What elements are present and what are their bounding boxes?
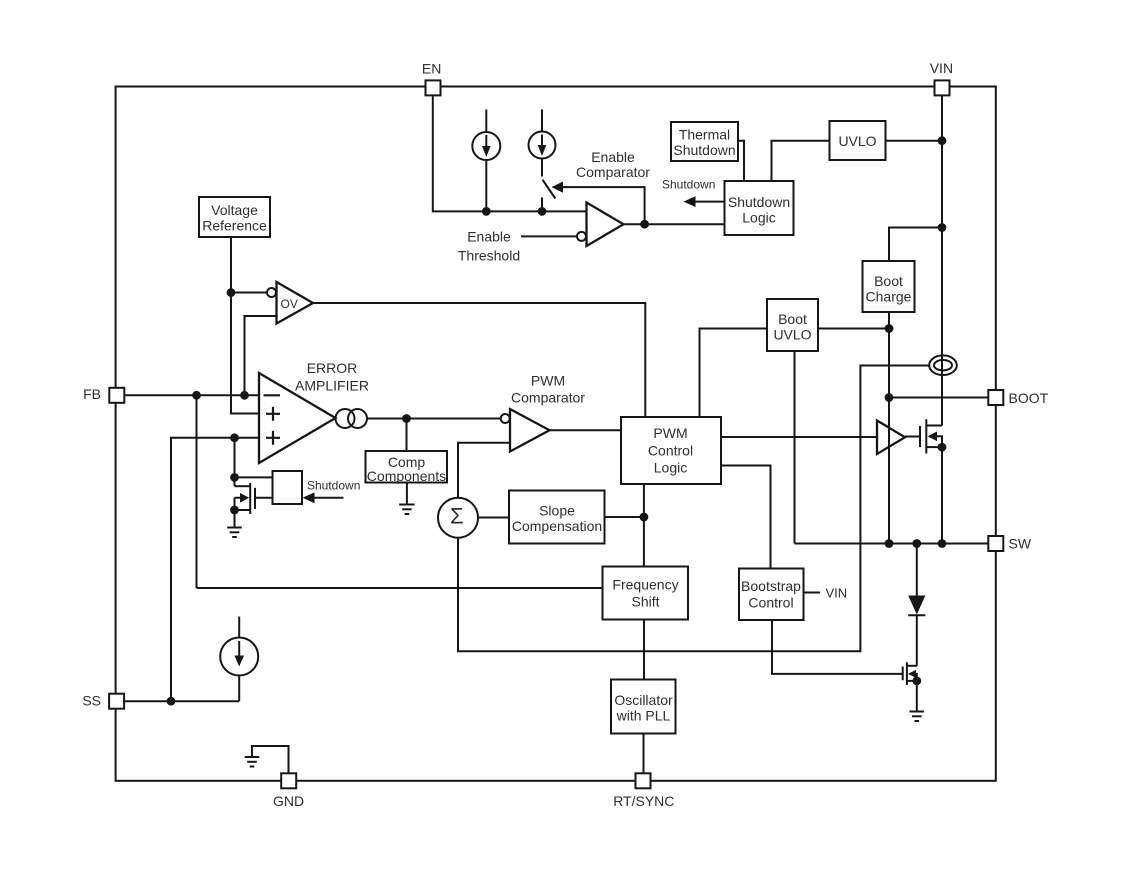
- op-amp U1 enable comparator: [577, 203, 624, 247]
- svg-text:Reference: Reference: [202, 218, 267, 234]
- current source I2: [529, 110, 556, 177]
- transistor Q2 bootstrap low-side MOSFET: [903, 662, 921, 685]
- node EN line junction 2: [538, 207, 547, 216]
- svg-text:Compensation: Compensation: [512, 518, 602, 534]
- switch S1 (enable threshold switch): [542, 180, 555, 212]
- block Shutdown Logic: [725, 181, 794, 235]
- block PWM Control Logic: [621, 417, 721, 484]
- current sense transformer symbol: [929, 355, 957, 375]
- svg-text:Components: Components: [367, 468, 446, 484]
- node VIN-BootCharge junction: [938, 223, 947, 232]
- wire Voltage Reference down to error amp: [231, 237, 259, 414]
- svg-text:AMPLIFIER: AMPLIFIER: [295, 378, 369, 394]
- block Bootstrap Control: [739, 569, 804, 621]
- svg-text:RT/SYNC: RT/SYNC: [613, 793, 674, 809]
- svg-text:Thermal: Thermal: [679, 127, 730, 143]
- svg-text:Logic: Logic: [742, 210, 775, 226]
- wire to shutdown switch: [234, 438, 236, 478]
- wire UVLO to Shutdown Logic: [772, 141, 830, 181]
- svg-text:VIN: VIN: [930, 60, 953, 76]
- svg-text:Charge: Charge: [866, 289, 912, 305]
- block Frequency Shift: [603, 567, 689, 620]
- wire Boot Charge to VIN rail: [889, 228, 942, 262]
- svg-text:GND: GND: [273, 793, 304, 809]
- svg-text:Comparator: Comparator: [576, 164, 650, 180]
- svg-text:Comparator: Comparator: [511, 390, 585, 406]
- wire sigma to PWM comparator input: [458, 443, 510, 498]
- pin SW: [988, 536, 1003, 551]
- node SW junction 2: [912, 539, 921, 548]
- wire BOOT net: [889, 397, 988, 399]
- wire FB to Frequency Shift: [197, 587, 603, 589]
- block Boot Charge: [863, 261, 915, 312]
- block Comp Components: [366, 451, 448, 483]
- op-amp U2 gate driver: [877, 421, 905, 455]
- wire EN vertical and horizontal to enable comparator: [433, 95, 587, 211]
- svg-text:Control: Control: [748, 595, 793, 611]
- svg-text:Logic: Logic: [654, 460, 687, 476]
- wire PWM Control Logic down to Frequency Shift: [643, 484, 645, 567]
- node FB junction 2: [240, 391, 249, 400]
- wire FB input line: [124, 394, 259, 396]
- block Thermal Shutdown: [671, 122, 738, 161]
- svg-text:ERROR: ERROR: [307, 360, 358, 376]
- node comparator output: [640, 220, 649, 229]
- pin BOOT: [988, 390, 1003, 405]
- wire SW line: [795, 543, 989, 545]
- svg-text:FB: FB: [83, 386, 101, 402]
- wire SS input line: [124, 700, 239, 702]
- svg-text:Frequency: Frequency: [612, 577, 678, 593]
- summing node sigma: [438, 498, 478, 538]
- block Boot UVLO: [767, 299, 818, 351]
- node SW junction 1: [885, 539, 894, 548]
- pin EN: [426, 80, 441, 95]
- node SS junction: [167, 697, 176, 706]
- wire shutdown output arrow from Shutdown Logic: [684, 196, 725, 207]
- block UVLO: [830, 121, 886, 160]
- block Slope Compensation: [509, 491, 605, 544]
- wire Boot UVLO to boot rail: [818, 328, 889, 330]
- shutdown driver box: [273, 471, 303, 504]
- wire FB to OV lower input: [245, 316, 277, 395]
- node SS-shutdown junction: [230, 433, 239, 442]
- op-amp U4 error amplifier: [259, 373, 336, 463]
- wire node to driver box: [235, 476, 273, 478]
- svg-text:Shutdown: Shutdown: [662, 178, 715, 192]
- transistor Q3 shutdown MOSFET: [230, 477, 272, 514]
- pin GND: [281, 773, 296, 788]
- ground for Q2: [910, 681, 925, 721]
- svg-text:Boot: Boot: [778, 311, 807, 327]
- wire Bootstrap Control VIN stub: [804, 592, 821, 594]
- wire Oscillator to RT/SYNC pin: [643, 734, 645, 774]
- wire PWM comparator output: [550, 429, 622, 431]
- svg-text:PWM: PWM: [653, 425, 687, 441]
- ground for Q3: [227, 510, 242, 537]
- svg-text:Shift: Shift: [631, 594, 659, 610]
- diode D1: [908, 544, 925, 666]
- wire driver to gate: [905, 436, 920, 438]
- wire Slope Compensation to PWM logic line: [605, 516, 644, 518]
- wire current sense path to summing node: [458, 366, 929, 652]
- svg-text:SS: SS: [82, 693, 101, 709]
- wire sigma to Slope Compensation: [478, 517, 509, 519]
- ground at GND pin: [245, 746, 289, 773]
- node boot rail junction: [885, 324, 894, 333]
- IC boundary: [116, 87, 996, 781]
- wire UVLO to VIN rail: [886, 140, 943, 142]
- node BOOT junction: [885, 393, 894, 402]
- wire shutdown arrow into driver box: [303, 492, 344, 503]
- wire comp node to Comp Components: [406, 419, 408, 452]
- node EN line junction 1: [482, 207, 491, 216]
- node comp node: [402, 414, 411, 423]
- wire Bootstrap Control to Q2 gate: [772, 620, 903, 674]
- svg-text:BOOT: BOOT: [1009, 390, 1049, 406]
- svg-text:SW: SW: [1009, 536, 1032, 552]
- svg-text:Shutdown: Shutdown: [307, 479, 360, 493]
- current source I1: [472, 110, 500, 212]
- svg-text:Enable: Enable: [591, 149, 635, 165]
- wire enable threshold input: [521, 235, 577, 237]
- svg-text:Boot: Boot: [874, 273, 903, 289]
- current source I3 soft start: [220, 617, 258, 702]
- node vref-OV junction: [227, 288, 236, 297]
- pin FB: [109, 388, 124, 403]
- svg-text:Σ: Σ: [450, 504, 464, 529]
- block Oscillator with PLL: [611, 680, 676, 734]
- wire OV output to PWM Control Logic: [313, 303, 645, 417]
- svg-text:Oscillator: Oscillator: [614, 692, 673, 708]
- ground for Comp Components: [399, 483, 414, 515]
- svg-text:UVLO: UVLO: [773, 327, 811, 343]
- svg-text:with PLL: with PLL: [616, 708, 671, 724]
- svg-text:Enable: Enable: [467, 229, 511, 245]
- wire VIN rail vertical: [941, 95, 943, 425]
- svg-text:Shutdown: Shutdown: [728, 194, 790, 210]
- svg-text:Control: Control: [648, 443, 693, 459]
- svg-text:PWM: PWM: [531, 373, 565, 389]
- node shutdown switch top: [230, 473, 239, 482]
- wire Boot Charge down to SW line: [888, 312, 890, 544]
- wire comparator feedback to switch with arrow: [552, 182, 645, 225]
- wire Boot UVLO down to SW line: [794, 351, 796, 544]
- svg-text:Bootstrap: Bootstrap: [741, 578, 801, 594]
- op-amp U5 PWM comparator: [501, 409, 550, 452]
- svg-text:Voltage: Voltage: [211, 202, 258, 218]
- svg-text:UVLO: UVLO: [838, 133, 876, 149]
- svg-text:Threshold: Threshold: [458, 248, 520, 264]
- pin VIN: [935, 80, 950, 95]
- wire PWM Control Logic to gate driver: [721, 436, 877, 438]
- node UVLO-VIN junction: [938, 136, 947, 145]
- node SW junction 3: [938, 539, 947, 548]
- svg-text:OV: OV: [281, 297, 298, 311]
- wire Frequency Shift to Oscillator: [643, 620, 645, 680]
- wire Thermal Shutdown to Shutdown Logic: [738, 141, 744, 181]
- wire FB down to Frequency Shift: [196, 395, 198, 588]
- node FB junction 1: [192, 391, 201, 400]
- wire PWM Control Logic to Bootstrap Control: [721, 466, 771, 569]
- svg-text:Shutdown: Shutdown: [673, 142, 735, 158]
- svg-text:VIN: VIN: [826, 586, 848, 601]
- transistor Q1 high-side MOSFET: [920, 419, 946, 543]
- wire error amp output to PWM comparator: [367, 418, 501, 420]
- wire SS to error amp lower input: [171, 438, 259, 701]
- op-amp U3 OV comparator: [267, 282, 313, 324]
- wire vref to OV bubble: [231, 292, 267, 294]
- svg-text:EN: EN: [422, 60, 441, 76]
- node slope comp junction: [640, 513, 649, 522]
- error amplifier output current symbol: [336, 409, 368, 428]
- block Voltage Reference: [199, 197, 270, 237]
- wire Boot UVLO to PWM Control Logic: [700, 329, 768, 418]
- wire enable comparator output to Shutdown Logic: [624, 223, 725, 225]
- svg-text:Slope: Slope: [539, 503, 575, 519]
- pin SS: [109, 694, 124, 709]
- pin RT/SYNC: [636, 773, 651, 788]
